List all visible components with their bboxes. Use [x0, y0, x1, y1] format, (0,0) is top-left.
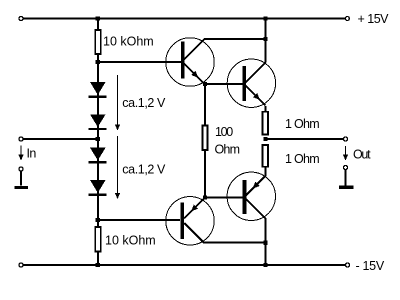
diode D4 — [89, 180, 107, 196]
Out arrow — [343, 146, 371, 162]
diode D3 — [89, 148, 107, 164]
svg-text:1 Ohm: 1 Ohm — [285, 152, 319, 166]
wire Out — [266, 138, 344, 140]
wire bottom rail -15V — [24, 264, 345, 266]
annotation arrow ca.1,2 V upper — [115, 75, 166, 131]
transistor Q4 PNP bottom left — [166, 197, 214, 245]
node rail-left-branch top — [96, 16, 100, 20]
svg-text:+ 15V: + 15V — [358, 12, 390, 26]
transistor Q2 NPN upper right — [227, 59, 275, 107]
svg-text:Ohm: Ohm — [215, 143, 240, 157]
wire Q4 base — [98, 219, 180, 221]
node Out junction — [263, 137, 267, 141]
transistor Q1 NPN top left — [166, 38, 214, 86]
wire right branch top vertical — [265, 19, 267, 62]
node Q4 collector junction — [263, 241, 267, 245]
wire left branch vertical — [97, 19, 99, 30]
resistor R4 1 Ohm lower right — [263, 145, 320, 167]
node Q4 base junction — [96, 218, 100, 222]
wire top rail +15V — [24, 18, 345, 20]
terminal Out top — [344, 137, 348, 141]
node rail-right-branch top — [263, 16, 267, 20]
resistor R5 100 Ohm middle — [202, 125, 239, 157]
resistor R2 10 kOhm bottom left — [95, 227, 156, 252]
wire Q1 collector horizontal — [205, 38, 266, 40]
terminal +15V right — [345, 17, 349, 21]
annotation arrow ca.1,2 V lower — [115, 136, 166, 199]
wire Q2 base — [205, 83, 243, 85]
svg-text:- 15V: - 15V — [356, 259, 385, 273]
svg-text:10 kOhm: 10 kOhm — [105, 234, 156, 248]
wire Q4 collector horizontal — [204, 242, 266, 244]
terminal In bottom — [19, 167, 23, 171]
svg-text:100: 100 — [215, 125, 233, 139]
node Q1 collector junction — [263, 37, 267, 41]
svg-text:ca.1,2 V: ca.1,2 V — [122, 163, 166, 177]
node rail-right-branch bottom — [263, 263, 267, 267]
wire Q3 base — [205, 197, 243, 199]
resistor R3 1 Ohm upper right — [263, 112, 320, 135]
diode D2 — [89, 114, 107, 130]
terminal -15V right — [346, 263, 350, 267]
node Q1 emitter junction — [203, 82, 207, 86]
svg-text:Out: Out — [353, 148, 371, 162]
wire Q3 emitter stub — [265, 167, 267, 176]
node In junction — [96, 137, 100, 141]
svg-text:ca.1,2 V: ca.1,2 V — [122, 96, 166, 110]
In arrow — [18, 146, 36, 161]
node Q4 emitter junction — [203, 195, 207, 199]
wire In to diode chain — [24, 138, 98, 140]
node junction dots — [96, 16, 268, 267]
wire Q2 emitter stub — [265, 106, 267, 112]
diode D1 — [89, 82, 107, 98]
node rail-left-branch bottom — [96, 263, 100, 267]
transistor Q3 PNP lower right — [227, 172, 275, 220]
svg-text:1 Ohm: 1 Ohm — [285, 117, 319, 131]
terminal In top — [19, 137, 23, 141]
svg-text:10 kOhm: 10 kOhm — [103, 35, 154, 49]
terminal Out bottom — [344, 166, 348, 170]
wire Q3 collector vertical — [265, 219, 267, 266]
terminal +15V left — [19, 17, 23, 21]
terminal -15V left — [19, 263, 23, 267]
wire middle branch vertical — [204, 84, 206, 125]
resistor R1 10 kOhm top left — [95, 30, 154, 54]
svg-text:In: In — [27, 147, 37, 161]
ground In — [14, 172, 28, 190]
node Q1 base junction — [96, 60, 100, 64]
wire Q1 base — [98, 61, 181, 63]
ground Out — [339, 170, 354, 189]
